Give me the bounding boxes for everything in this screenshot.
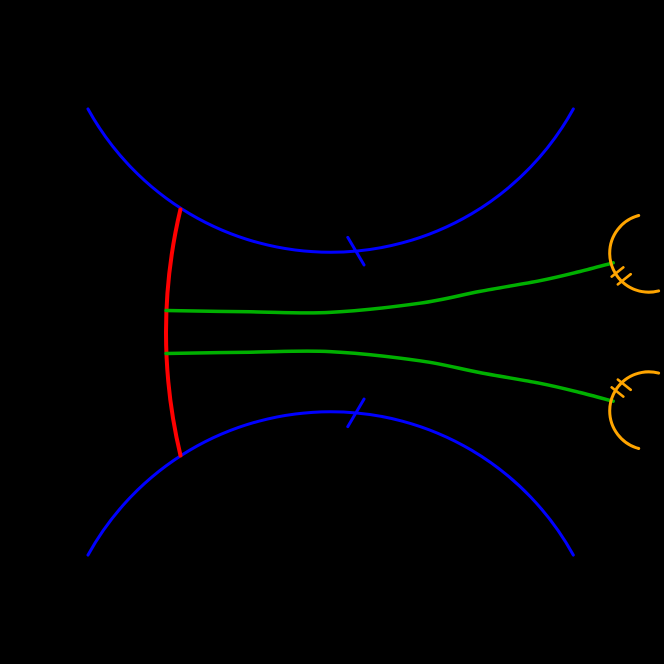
lower green curve — [166, 351, 613, 401]
upper orange circle arc — [610, 216, 659, 293]
upper green curve — [166, 263, 613, 313]
upper orange tick 2 — [618, 274, 631, 284]
upper blue boundary arc — [88, 109, 573, 252]
lower orange circle arc — [610, 372, 659, 449]
red geodesic arc — [166, 210, 181, 456]
lower blue tick mark — [348, 399, 364, 427]
upper blue tick mark — [348, 237, 364, 265]
lower blue boundary arc — [88, 412, 573, 555]
lower orange tick 2 — [618, 380, 631, 390]
lower orange tick 1 — [612, 387, 624, 396]
upper orange tick 1 — [612, 267, 624, 276]
